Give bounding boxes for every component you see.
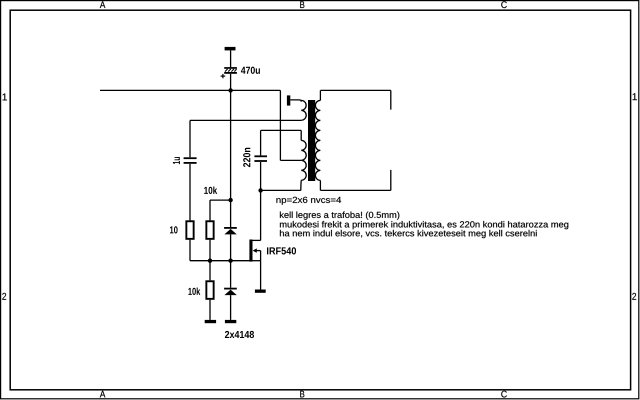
row label 2 (left) — [2, 293, 6, 300]
wire 10k top vertical — [209, 200, 211, 220]
capacitor 220n — [254, 155, 267, 162]
label np=2x6 nvcs=4 — [276, 197, 341, 205]
wire C3 bottom lead — [260, 162, 262, 191]
label 2x4148 — [225, 331, 254, 338]
wire 10k upper bottom — [209, 240, 211, 261]
label IRF540 — [267, 247, 296, 254]
secondary bottom lead — [319, 180, 321, 190]
wire C1 to rail junction — [230, 74, 232, 91]
wire 10k top horizontal — [210, 199, 231, 201]
wire supply to C1 — [230, 50, 232, 67]
junction gate/10k — [208, 259, 212, 263]
column label C (bottom) — [501, 391, 507, 398]
note line 2 — [280, 221, 568, 229]
wire source vertical — [260, 261, 262, 290]
value label 470u — [241, 67, 260, 74]
row label 1 (right) — [633, 93, 637, 100]
secondary winding (8 turns) — [315, 100, 320, 180]
wire D1 to gate node — [230, 234, 232, 260]
wire C2 bottom lead — [189, 164, 191, 221]
ground bar at source — [255, 290, 266, 293]
wire D2 to ground — [230, 295, 232, 320]
junction rail/C1 — [228, 88, 232, 92]
wire secondary bottom — [320, 189, 390, 191]
wire secondary top stub — [390, 90, 392, 109]
ground bar under D2 — [225, 320, 236, 323]
resistor 10k upper — [206, 221, 213, 239]
wire 10k lower to ground — [209, 300, 211, 320]
MOSFET Q1 body bar — [249, 240, 252, 262]
wire upper winding tap to C2 — [190, 119, 301, 121]
secondary top lead — [319, 90, 321, 100]
wire C3 top lead — [260, 130, 262, 155]
supply rail bar — [225, 47, 236, 51]
diode D1 4148 — [224, 227, 237, 234]
polarized capacitor 470u — [224, 67, 237, 74]
row label 2 (right) — [632, 293, 636, 300]
value label 10k upper — [204, 187, 217, 194]
column label A (top) — [100, 1, 106, 8]
primary bottom lead — [300, 180, 302, 190]
value label 10k lower — [188, 288, 200, 295]
row label 1 (left) — [3, 94, 7, 101]
wire gate line — [190, 260, 250, 262]
wire tap to lower winding mid — [280, 159, 301, 161]
primary winding upper (2 turns) — [301, 100, 306, 120]
value label 220n (rotated) — [243, 148, 250, 167]
wire rail corner down right — [279, 90, 281, 160]
junction 10k/rail — [228, 198, 232, 202]
column label A (bottom) — [100, 391, 106, 398]
wire rail down to D1 — [230, 90, 232, 227]
wire secondary bottom stub — [390, 170, 392, 191]
junction gate/diodes — [228, 259, 232, 263]
column label B (top) — [300, 1, 304, 8]
note line 1 — [280, 212, 399, 220]
column label B (bottom) — [300, 391, 304, 398]
column label C (top) — [501, 1, 507, 8]
transformer core — [308, 100, 315, 181]
wire R10 bottom — [189, 240, 191, 261]
value label 1u (rotated) — [173, 157, 180, 164]
wire drain vertical — [260, 190, 262, 240]
wire top rail — [100, 89, 280, 91]
MOSFET bulk arrow — [253, 248, 261, 260]
wire drain horizontal — [253, 239, 261, 241]
resistor 10k lower — [206, 281, 213, 299]
wire C2 top lead — [189, 120, 191, 157]
wire gate node to D2 — [230, 261, 232, 288]
value label 10 — [170, 226, 178, 233]
resistor 10 — [186, 221, 193, 239]
junction drain node — [258, 188, 262, 192]
wire 10k lower top — [209, 261, 211, 281]
wire source horizontal — [253, 260, 261, 262]
diode D2 4148 — [224, 288, 237, 295]
primary top lead — [290, 100, 301, 102]
ground bar under 10k — [205, 320, 216, 323]
wire C3 to lower winding top — [261, 129, 302, 131]
transformer winding start marker — [287, 95, 290, 105]
wire primary bottom — [261, 189, 301, 191]
wire secondary top — [320, 89, 390, 91]
plus polarity mark — [221, 74, 226, 78]
note line 3 — [280, 230, 537, 238]
capacitor 1u — [184, 157, 197, 164]
primary winding lower (4 turns) — [301, 140, 306, 180]
wire lower winding top lead — [300, 130, 302, 140]
